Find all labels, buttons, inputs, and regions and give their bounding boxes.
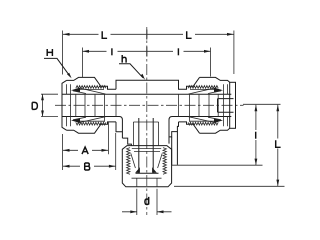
extension line left for A/B bbox=[62, 134, 64, 170]
bore bottom line left with port corner bbox=[62, 117, 122, 139]
extension line right for A bbox=[107, 122, 109, 154]
right ferrule bottom bbox=[189, 117, 224, 123]
dimension d line with arrows bbox=[122, 210, 172, 213]
dimension B bbox=[63, 165, 115, 168]
bottom nut outline bbox=[122, 146, 171, 187]
left serration root line top bbox=[76, 88, 104, 90]
body outline top hex bbox=[116, 77, 200, 89]
right nut internal verticals bbox=[190, 84, 228, 126]
bore top line bbox=[62, 93, 231, 95]
body internal verticals bbox=[116, 94, 179, 116]
label D bbox=[32, 102, 37, 109]
right vertical dims: top extension line bbox=[243, 103, 281, 105]
L bottom extension line bbox=[174, 185, 285, 187]
left nut outline bbox=[62, 77, 116, 133]
right face ring bbox=[230, 82, 236, 128]
right serration bottom bbox=[188, 122, 218, 125]
label d bbox=[145, 197, 149, 205]
left serration root line bottom bbox=[76, 120, 104, 122]
dimension D vertical line with arrows bbox=[41, 94, 44, 116]
extension line right for I bbox=[210, 48, 212, 77]
bottom serration right bbox=[163, 148, 166, 175]
right ferrule top bbox=[189, 88, 224, 94]
bottom serration left bbox=[127, 148, 130, 175]
dimension A bbox=[63, 149, 108, 152]
left serration top bbox=[76, 86, 106, 89]
extension line left for I bbox=[82, 48, 84, 78]
extension line left for L bbox=[62, 31, 64, 75]
centerline tick at I line bbox=[146, 47, 148, 57]
right port tube inner walls bbox=[218, 99, 234, 113]
L vertical dimension line bbox=[276, 105, 279, 186]
label L (top right) bbox=[187, 31, 192, 38]
bottom port counterbore walls bbox=[133, 122, 158, 146]
label I (left) bbox=[111, 48, 113, 55]
right serration root line bottom bbox=[190, 120, 218, 122]
label I (right) bbox=[177, 48, 179, 55]
left ferrule bottom bbox=[71, 117, 106, 123]
extension lines for D bbox=[41, 94, 58, 116]
bottom port tube seat bbox=[136, 172, 159, 174]
right serration root line top bbox=[190, 88, 218, 90]
bore bottom line right with port corner bbox=[169, 117, 231, 144]
label I (right vertical) bbox=[255, 132, 257, 139]
extension line right for B bbox=[115, 133, 117, 170]
left ferrule top bbox=[71, 88, 106, 94]
left nut internal verticals bbox=[67, 84, 105, 126]
label L (right vertical) bbox=[276, 140, 281, 147]
right nut outline bbox=[179, 77, 230, 133]
label h with leader bbox=[119, 55, 145, 80]
I vertical dimension line bbox=[255, 105, 258, 165]
body right lower skirt bbox=[172, 132, 178, 165]
body bottom-left staircase bbox=[116, 122, 131, 146]
vertical centerline bbox=[146, 27, 148, 215]
extension line right for L bbox=[233, 31, 235, 75]
centerline tick at L line bbox=[146, 30, 148, 40]
bottom port bore walls bbox=[139, 118, 153, 174]
right serration top bbox=[188, 86, 218, 89]
I bottom extension line bbox=[172, 164, 263, 166]
body bottom-right staircase bbox=[169, 122, 179, 137]
left serration bottom bbox=[76, 122, 106, 125]
bottom ferrule left bbox=[131, 153, 140, 172]
label L (top left) bbox=[102, 31, 107, 38]
label H with leader bbox=[44, 49, 72, 78]
dimension d extension lines bbox=[137, 189, 157, 215]
bottom nut internal lines bbox=[132, 149, 162, 187]
horizontal centerline bbox=[55, 104, 244, 106]
bottom ferrule right bbox=[152, 153, 162, 172]
label A bbox=[82, 147, 88, 154]
label B bbox=[85, 163, 90, 170]
dimension L top line bbox=[63, 33, 234, 36]
dimension I second line bbox=[83, 50, 211, 53]
